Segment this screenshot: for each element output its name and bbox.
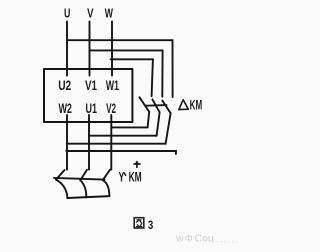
wire right vertical from h3: [152, 59, 153, 96]
contactor delta-KM linkage bar: [146, 104, 167, 107]
wire right vertical from h2: [161, 50, 163, 96]
wire delta pole2 lower: [157, 112, 160, 135]
svg-text:U1: U1: [86, 100, 98, 116]
wire W vertical drop: [111, 22, 113, 70]
delta symbol of delta-KM label: [179, 100, 189, 110]
svg-text:KM: KM: [190, 98, 203, 113]
contactor delta-KM pole 2 blade: [152, 99, 159, 112]
wire Y pole3 lower: [103, 180, 110, 196]
wire delta pole1 lower: [148, 112, 150, 128]
wire return B to U1: [89, 135, 157, 137]
contactor Y-KM pole 1 blade: [56, 170, 65, 180]
wire star link end stub: [175, 151, 177, 154]
svg-text:U: U: [64, 6, 70, 21]
contactor delta-KM pole 1 blade: [140, 97, 150, 112]
wire right vertical from h1: [172, 40, 174, 97]
arrow marker above Y-KM label: [134, 160, 139, 164]
contactor Y-KM pole 3 blade: [103, 170, 110, 181]
caption glyph tu (figure) drawn: [134, 218, 144, 228]
svg-text:w: w: [175, 233, 184, 245]
wire Y pole2 lower: [80, 180, 86, 197]
wire delta pole3 lower: [166, 113, 171, 144]
svg-text:Cou: Cou: [195, 233, 214, 245]
wire branch V horizontal h2: [90, 49, 163, 51]
contactor Y-KM linkage bar: [54, 178, 105, 180]
wire U vertical drop: [66, 22, 68, 70]
arrow marker tail: [136, 165, 138, 168]
wire return A to V2: [111, 126, 147, 128]
wire star point bar: [67, 196, 109, 198]
svg-text:W2: W2: [58, 100, 72, 116]
terminal stub bottom W2: [66, 115, 68, 122]
wire star link horizontal: [66, 150, 176, 152]
wire branch W horizontal h3: [111, 58, 153, 60]
terminal stub top W1: [111, 69, 113, 76]
terminal stub bottom V2: [110, 115, 112, 122]
terminal stub top V1: [89, 69, 91, 76]
terminal stub top U2: [66, 69, 68, 76]
wire Y pole1 lower: [56, 180, 67, 198]
svg-text:V: V: [87, 6, 94, 21]
svg-text:KM: KM: [129, 169, 142, 184]
wire drop U1 below box: [88, 122, 90, 170]
wire V vertical drop: [89, 22, 91, 70]
contactor delta-KM pole 3 blade: [162, 101, 170, 114]
svg-text:W: W: [105, 6, 114, 21]
svg-text:U2: U2: [58, 77, 71, 93]
svg-text:,......: ,......: [212, 234, 239, 246]
contactor Y-KM pole 2 blade: [80, 170, 87, 181]
terminal stub bottom U1: [88, 115, 90, 122]
terminal box: [44, 69, 132, 122]
Y-KM label apostrophe tick: [125, 173, 126, 175]
watermark faint: [175, 233, 239, 246]
svg-text:W1: W1: [106, 77, 119, 93]
arrow marker crossbar: [134, 163, 140, 165]
svg-text:3: 3: [148, 220, 153, 232]
svg-text:V1: V1: [85, 77, 97, 93]
wire branch U horizontal h1: [67, 39, 173, 41]
svg-text:V2: V2: [106, 100, 116, 116]
wire drop W2 below box: [66, 122, 68, 170]
svg-text:Y: Y: [119, 169, 125, 184]
wire return C to W2: [67, 143, 166, 145]
wire drop V2 below box: [110, 122, 112, 170]
